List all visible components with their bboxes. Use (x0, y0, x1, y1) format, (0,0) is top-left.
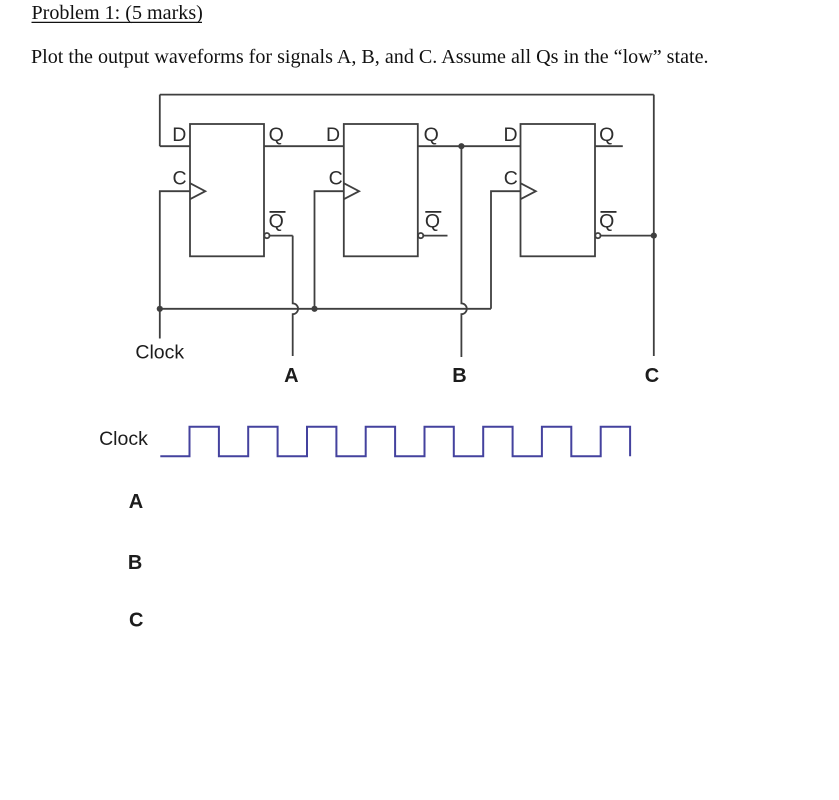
wire: output B vertical with hop over clock bus (461, 146, 466, 357)
wire: clock bus horizontal (160, 308, 491, 310)
wire: U3 clock tap (491, 191, 521, 309)
wire: U2 clock tap (315, 191, 344, 309)
wire: Q2 to D3 (418, 145, 521, 147)
svg-text:C: C (504, 167, 518, 189)
wire: Q1 to D2 (264, 145, 344, 147)
svg-text:Q: Q (425, 211, 440, 233)
U2 Qbar inversion bubble (418, 233, 423, 238)
U3 pin label Qbar (599, 211, 616, 233)
svg-text:C: C (173, 167, 187, 189)
svg-text:D: D (172, 124, 186, 146)
node: junction on Q2 net (output B tap) (458, 143, 464, 149)
U3 clock edge triangle (521, 183, 536, 199)
svg-text:C: C (645, 365, 659, 387)
flip-flop U1 body (190, 124, 264, 256)
svg-text:B: B (128, 552, 142, 574)
wire: feedback right vertical (Qbar3 down to output C) (653, 95, 655, 356)
svg-text:Q: Q (599, 211, 614, 233)
wire: clock source stub and U1 clock tap (160, 191, 190, 338)
U1 clock edge triangle (190, 183, 205, 199)
U1 pin label Qbar (269, 211, 286, 233)
svg-text:Clock: Clock (135, 342, 184, 364)
svg-text:Q: Q (599, 124, 614, 146)
svg-text:Clock: Clock (99, 428, 148, 450)
clock waveform trace (160, 427, 630, 457)
flip-flop U2 body (344, 124, 418, 256)
svg-text:C: C (329, 167, 343, 189)
wire: Qbar2 stub (424, 235, 448, 237)
wire: Qbar3 to feedback vertical (601, 235, 654, 237)
svg-text:Q: Q (269, 211, 284, 233)
svg-text:Q: Q (269, 124, 284, 146)
svg-text:C: C (129, 609, 143, 631)
wire: Q3 stub (595, 145, 623, 147)
U2 clock edge triangle (344, 183, 359, 199)
svg-text:Problem 1: (5 marks): Problem 1: (5 marks) (32, 2, 203, 24)
svg-text:Q: Q (424, 124, 439, 146)
svg-text:D: D (326, 124, 340, 146)
wire: output A vertical with hop over clock bus (293, 236, 298, 356)
node: junction Qbar3 / feedback vertical (651, 233, 657, 239)
wire: feedback net from Qbar3 to D1 (top horizontal) (160, 94, 654, 96)
node: junction clock bus / U2 tap (311, 306, 317, 312)
svg-text:B: B (452, 365, 466, 387)
wire: feedback left vertical drop to D1 (159, 95, 161, 147)
wire: Qbar1 output (270, 235, 293, 237)
svg-text:A: A (284, 365, 298, 387)
flip-flop U3 body (521, 124, 596, 256)
U3 Qbar inversion bubble (595, 233, 600, 238)
U1 Qbar inversion bubble (264, 233, 269, 238)
title: Problem 1: (5 marks) (32, 2, 203, 24)
svg-text:A: A (129, 491, 143, 513)
U2 pin label Qbar (425, 211, 441, 233)
svg-text:Plot the output waveforms for: Plot the output waveforms for signals A,… (31, 46, 709, 68)
svg-text:D: D (504, 124, 518, 146)
wire: D1 input stub (160, 145, 190, 147)
node: junction clock bus / clock source (157, 306, 163, 312)
